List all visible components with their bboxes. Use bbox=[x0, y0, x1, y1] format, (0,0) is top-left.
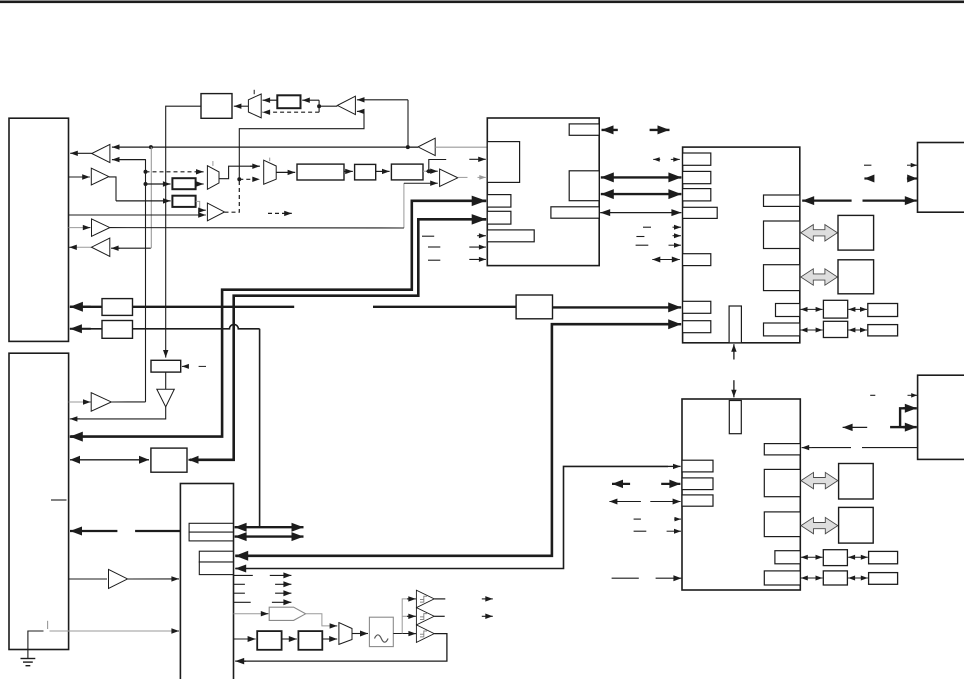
IC U0 host interface block bbox=[9, 118, 69, 341]
double arrow U3 pin R5 to G2a bbox=[801, 576, 823, 581]
thick path P3 U6 to U2 bbox=[236, 324, 670, 556]
U2 pin box L2 bbox=[683, 171, 711, 183]
U1 pin box left s1 bbox=[487, 195, 511, 208]
buffer Ta bbox=[337, 96, 355, 114]
arrow C1 to C2 bbox=[282, 636, 297, 642]
net x259 down to U6 bus arrow bbox=[259, 329, 261, 527]
U6 pin box R4 bbox=[199, 562, 233, 575]
wire Ta output to node J1 bbox=[319, 100, 337, 106]
thick arrow label left y178 bbox=[864, 175, 874, 183]
thick arrow into U1 top right box bbox=[602, 125, 618, 134]
tick U6 row y584 bbox=[234, 583, 245, 585]
wire U5 to label gap y447 bbox=[862, 447, 918, 449]
wire B2 output to box 2 bbox=[109, 177, 116, 201]
arrowhead into T1 bbox=[407, 596, 416, 601]
U2 pin box L7 bbox=[683, 321, 711, 333]
divider box C1 bbox=[257, 631, 281, 650]
small arrow into U1 wide pin bbox=[477, 233, 486, 238]
grey stub T_c output bbox=[458, 176, 468, 178]
bus arrow into U0 row m2 bbox=[70, 324, 91, 333]
bus m1 segment box BUS to U2 bbox=[553, 306, 671, 308]
ground wire from switch bbox=[28, 631, 44, 659]
small arrow into U2 row y227 bbox=[673, 225, 682, 230]
register box A bbox=[201, 94, 232, 119]
arrowhead into mux M2 upper input bbox=[250, 164, 260, 169]
tiny arrow into U4 y165 bbox=[907, 163, 917, 168]
tiny arrow into U3 row y519 bbox=[674, 517, 681, 522]
U2 pin box L3 bbox=[683, 189, 711, 201]
wire into U3 row y578 bbox=[656, 575, 682, 581]
dash label left of U1 wide pin bbox=[422, 235, 434, 237]
arrowhead P3 into U6 pin bbox=[235, 551, 248, 561]
arrowhead bus m1 into U2 pin6 bbox=[668, 302, 681, 312]
junction J1 on Ta output bbox=[317, 104, 321, 108]
bus register box M2 bbox=[102, 321, 133, 339]
arrowhead into T2 bbox=[407, 614, 416, 619]
dash line U3 row y578 left part bbox=[612, 577, 639, 579]
thick L wire into U5 bbox=[900, 408, 905, 427]
filter box 5 bbox=[297, 164, 344, 180]
schmitt buffer T2 bbox=[416, 608, 434, 625]
wire U0 row to T_b lower input bbox=[69, 212, 206, 217]
arrowhead into pentagon bbox=[261, 611, 269, 616]
grey jog box2 output to T_b upper input bbox=[196, 201, 200, 210]
mux M3 bbox=[207, 161, 219, 189]
wire box A to vertical net N1 bbox=[166, 106, 201, 355]
T1 label arrow bbox=[482, 596, 493, 602]
arrow mux M1 output into box A bbox=[234, 104, 249, 109]
box G2a bbox=[823, 571, 847, 585]
buffer T_b bbox=[207, 203, 224, 221]
schmitt buffer T3 bbox=[416, 625, 434, 643]
thin arrow label left y501 bbox=[609, 499, 641, 505]
SRAM box D4 bbox=[839, 507, 874, 543]
arrow node into box R bbox=[302, 98, 319, 103]
thick wire segment toward U4 bbox=[863, 200, 906, 202]
double arrow U3 pin R4 to G1a bbox=[801, 555, 823, 560]
U6 pin box R2 bbox=[189, 532, 233, 541]
arrowhead P2 into box B14 bbox=[189, 456, 199, 464]
thick path P2 U1 to box B14 bbox=[190, 219, 486, 459]
tick U6 row y593 bbox=[234, 592, 245, 594]
grey net from long net down x151 bbox=[150, 147, 152, 248]
wire U7 to buffer B7 bbox=[69, 578, 107, 580]
small arrow into U2 row y236 bbox=[673, 233, 682, 238]
interface box B14 bbox=[151, 448, 187, 472]
grey wire U0 to B3 bbox=[69, 227, 88, 229]
thick path P1 U1 to U7 bbox=[71, 201, 486, 437]
wire B4 input horizontal bbox=[116, 247, 151, 249]
IC U6 clock block bbox=[180, 484, 233, 679]
U6 pin box R1 bbox=[189, 523, 233, 532]
junction J3 grey drop on long net bbox=[149, 145, 153, 149]
grey switch wire into U6 bbox=[50, 630, 174, 632]
arrow box R output into mux M1 bbox=[263, 98, 278, 103]
box F1 bbox=[823, 321, 847, 337]
U2 pin box Re bbox=[764, 323, 800, 336]
box F2 bbox=[868, 325, 898, 336]
wire label gap to U3 pin R1 bbox=[812, 447, 851, 449]
dash label near U5 y395 bbox=[870, 394, 875, 396]
buffer G1 bbox=[418, 138, 435, 155]
arrowhead feedback into U6 bbox=[235, 658, 246, 665]
arrow net into B1 lower input bbox=[112, 157, 146, 162]
arrow into Ta lower input bbox=[357, 109, 365, 114]
dashed wire net x145 to mux M3 bbox=[146, 169, 204, 174]
U2 pin box Ra bbox=[764, 195, 800, 206]
U3 pin box L3 bbox=[682, 495, 713, 506]
arrowhead lower into U5 bbox=[903, 423, 917, 432]
arrowhead P1 into U1 pin bbox=[472, 196, 487, 207]
arrow C2 to mux M4 lower bbox=[322, 636, 337, 642]
top border bar bbox=[0, 1, 964, 4]
thick arrow into U4 y178 bbox=[907, 175, 917, 183]
U1 pin box left wide bbox=[487, 230, 534, 242]
small arrow left label y159 bbox=[653, 157, 660, 162]
junction J7 on box7 output bbox=[427, 169, 431, 173]
IC U3 codec block 2 bbox=[682, 399, 800, 590]
T2 label arrow bbox=[482, 614, 493, 620]
bus m1 mid segment bbox=[133, 306, 295, 308]
stub net J7 up right toward U1 bbox=[429, 160, 446, 172]
arrow down into U3 clock slot bbox=[731, 380, 736, 397]
dash label U2 row y236 bbox=[636, 236, 644, 238]
inverter Tdown bbox=[157, 389, 175, 407]
grey wire U6 to pentagon bbox=[234, 613, 263, 615]
IC U4 memory block bbox=[918, 143, 964, 213]
SRAM box D1 bbox=[838, 215, 874, 250]
tiny arrow into U5 y395 bbox=[908, 393, 918, 398]
dashed wire J1 to mux M1 lower input bbox=[263, 110, 320, 115]
thick bus U1-U2 row1 bbox=[601, 172, 682, 182]
divider box C2 bbox=[298, 631, 322, 650]
schmitt buffer T1 bbox=[416, 590, 434, 607]
bus register box BUS bbox=[516, 295, 552, 319]
buffer T_c bbox=[440, 169, 458, 186]
arrow into buffer B2 input bbox=[69, 174, 90, 179]
grey wire box7 to T_c upper input bbox=[423, 170, 433, 172]
arrow long net into B1 upper input bbox=[112, 144, 418, 149]
dash label U3 row y519 bbox=[634, 518, 641, 520]
arrow small into box S right edge bbox=[182, 364, 189, 369]
thin arrow label left y427 bbox=[843, 424, 868, 432]
arrow box6 to box7 bbox=[376, 169, 390, 174]
mux M1 bbox=[248, 90, 261, 118]
fat grey arrow U3-D3 bbox=[801, 472, 838, 488]
small arrow into U2 pin1 bbox=[671, 157, 680, 162]
grey wire U7 to buffer B5 bbox=[69, 401, 88, 403]
arrowhead switch wire into U6 bbox=[171, 628, 179, 633]
box E2 bbox=[868, 304, 898, 317]
arrowhead P3 into U2 pin7 bbox=[668, 319, 681, 329]
wire inverter D to U7 bbox=[71, 407, 166, 419]
U2 pin box Rd bbox=[776, 304, 800, 317]
arrow box1 output into mux M3 bbox=[196, 181, 204, 186]
mux M2 bbox=[264, 158, 277, 185]
arrowhead into T3 bbox=[408, 631, 416, 636]
double arrow G2a to G2b bbox=[848, 576, 868, 581]
thin arrow into U3 pin L3 bbox=[650, 499, 680, 505]
buffer B7 bbox=[109, 569, 128, 588]
label arrow row y575 bbox=[270, 572, 292, 578]
wire B5 output up net x145 bbox=[111, 401, 145, 403]
box G2b bbox=[869, 573, 898, 585]
dash label U2 row y227 bbox=[643, 226, 651, 228]
IC U1 DSP block bbox=[487, 118, 599, 266]
filter box 7 bbox=[391, 164, 423, 180]
dash label U2 row y245 bbox=[636, 244, 649, 246]
isolated dashed arrow to DSP label bbox=[268, 211, 292, 216]
T2 output stub bbox=[434, 615, 445, 617]
U3 clock slot box bbox=[729, 401, 741, 434]
U3 pin box R2 bbox=[764, 469, 800, 496]
small arrow into U1 row y247 bbox=[469, 245, 486, 250]
thick arrow label to right bbox=[650, 125, 670, 134]
wire riser x408 from long net to Ta upper bbox=[407, 100, 409, 147]
dash label U3 row y531 bbox=[634, 530, 647, 532]
tick U6 row y602 bbox=[234, 601, 251, 603]
grey wire B4 output to U0 bbox=[74, 246, 92, 248]
junction J6 dashed to mux M2 bbox=[237, 177, 241, 181]
thick wire segment from U6 left bbox=[135, 530, 180, 532]
fat grey arrow U2-D1 bbox=[801, 225, 838, 241]
U2 pin box L6 bbox=[683, 301, 711, 313]
arrowhead into U4 bbox=[903, 196, 917, 205]
grey wire U1 to G1 input bbox=[435, 146, 486, 148]
mux M4 bbox=[339, 623, 352, 645]
dashed T_b output net bbox=[225, 179, 240, 212]
T1 output stub bbox=[434, 598, 445, 600]
dash label mark right of box S bbox=[199, 365, 206, 367]
small arrow into U3 row y531 bbox=[667, 529, 681, 534]
double arrow F1 to F2 bbox=[848, 328, 867, 333]
box G1a bbox=[823, 550, 847, 566]
thick double bus U6 row2 bbox=[235, 532, 304, 541]
grey branch to T2 bbox=[402, 615, 408, 617]
IC U2 codec block bbox=[683, 147, 800, 343]
box G1b bbox=[869, 551, 898, 563]
wire oscillator output to T3 bbox=[393, 633, 409, 635]
double arrow U2 pin Re to F1 bbox=[801, 328, 823, 333]
U1 pin box right mid bbox=[569, 171, 599, 201]
SRAM box D3 bbox=[839, 464, 874, 500]
arrow into B4 base bbox=[111, 246, 120, 251]
U1 pin box left tall bbox=[487, 142, 519, 183]
wire mux M3 output to mux M2 upper input bbox=[219, 166, 258, 179]
bus m2 wire with hop over P2 bbox=[133, 324, 260, 328]
fat grey arrow U3-D4 bbox=[801, 517, 838, 533]
U3 pin box L2 bbox=[682, 478, 713, 490]
bus register box M1 bbox=[102, 299, 133, 316]
bus m1 right segment to box BUS bbox=[373, 306, 516, 308]
coefficient box 2 bbox=[172, 196, 195, 207]
arrowhead B4 into U0 bbox=[69, 245, 77, 250]
junction J4 on net x145 dashed tap bbox=[144, 170, 148, 174]
double arrow G1a to G1b bbox=[848, 555, 868, 560]
register box R bbox=[277, 95, 300, 108]
tick U6 row y575 bbox=[234, 574, 253, 576]
label arrow row y584 bbox=[275, 581, 291, 587]
wire net x145 into box 1 bbox=[146, 181, 171, 186]
U3 pin box L1 bbox=[682, 460, 713, 472]
bus m2 left segment bbox=[70, 328, 102, 330]
small double arrow into U2 pin5 bbox=[652, 257, 680, 263]
U1 pin box left s2 bbox=[487, 211, 511, 224]
U2 pin box Rb bbox=[764, 221, 800, 249]
dash label left of U1 row y259 bbox=[428, 259, 440, 261]
grey arrow T_c output into U1 bbox=[478, 175, 486, 180]
label arrow row y593 bbox=[275, 590, 291, 596]
fat grey arrow U2-D2 bbox=[801, 269, 838, 285]
arrowhead clock into U6 pin bbox=[235, 565, 246, 573]
wire B2 net into box 2 bbox=[116, 198, 171, 203]
U3 pin box R5 bbox=[764, 571, 800, 585]
thick arrow label left y483 bbox=[612, 480, 630, 489]
thin bus U1-U2 row3 bbox=[600, 209, 681, 216]
arrow box5 to box6 bbox=[344, 169, 353, 174]
dash label left of U1 row y247 bbox=[428, 246, 440, 248]
U2 clock slot box bbox=[729, 306, 741, 343]
arrow into Ta upper input bbox=[357, 97, 408, 102]
small arrow into U2 row y245 bbox=[669, 243, 682, 248]
arrowhead into mux M4 upper bbox=[330, 623, 338, 628]
buffer B5 bbox=[91, 393, 111, 412]
junction J5 on net x145 box1 tap bbox=[144, 182, 148, 186]
arrowhead L wire upper into U5 bbox=[903, 404, 917, 413]
double arrow U2 pin Rd to E1 bbox=[801, 307, 823, 312]
dash label near U4 y165 bbox=[864, 164, 871, 166]
arrowhead into B5 bbox=[83, 399, 91, 404]
register box S bbox=[151, 360, 181, 372]
buffer B3 bbox=[92, 219, 110, 236]
wire from net y128 up to Ta lower input bbox=[239, 111, 364, 179]
net x259 end touch bbox=[259, 525, 261, 528]
arrowhead clock into U3 pin1 bbox=[668, 464, 681, 469]
arrowhead P1 into U7 bbox=[70, 432, 83, 442]
arrow mux M4 to oscillator bbox=[352, 631, 368, 637]
wire node J1 down to dashed feed bbox=[318, 106, 320, 112]
thick arrow into U2 pin Ra bbox=[802, 196, 851, 205]
box E1 bbox=[823, 300, 847, 318]
U2 pin box Rc bbox=[764, 265, 800, 291]
arrow segment into U1 pin row y159 bbox=[469, 157, 486, 162]
U3 pin box R3 bbox=[764, 512, 800, 537]
thick arrow into U3 pin L2 bbox=[661, 480, 680, 489]
buffer B2 bbox=[91, 168, 109, 185]
ground symbol bbox=[21, 659, 36, 666]
SRAM box D2 bbox=[838, 260, 874, 294]
bus m1 left segment bbox=[70, 306, 102, 308]
arrow into T_b upper input bbox=[198, 208, 206, 213]
arrowhead P2 into U1 pin bbox=[472, 214, 487, 225]
switch contact tick bbox=[47, 621, 49, 629]
grey riser from long B3 net bbox=[403, 183, 405, 228]
long wire B3 output to grey riser bbox=[110, 227, 404, 229]
U3 pin box R4 bbox=[775, 551, 800, 564]
filter box 6 bbox=[355, 164, 376, 180]
small arrow into U1 row y259 bbox=[469, 257, 486, 262]
grey riser to T1 T2 bbox=[402, 599, 408, 634]
double arrow U7 to box B14 bbox=[70, 456, 149, 464]
arrow mux M2 output into box 5 bbox=[276, 170, 295, 175]
arrow into register box S top bbox=[163, 350, 168, 358]
U2 pin box L4 wide bbox=[683, 207, 718, 218]
junction J2 on long net at x408 bbox=[406, 145, 410, 149]
arrow up into U2 clock slot bbox=[731, 344, 736, 359]
wire long net y147 behind G1 bbox=[408, 146, 418, 148]
arrowhead into B3 bbox=[83, 225, 91, 230]
buffer B4 bbox=[92, 238, 110, 256]
oscillator box OSC bbox=[369, 617, 393, 646]
arrowhead into U7 row y418 bbox=[70, 416, 80, 421]
U1 pin box right wide bbox=[551, 207, 599, 218]
clock wire U6 to U3 via x563 bbox=[236, 466, 668, 568]
arrowhead into U3 pin R1 bbox=[802, 445, 812, 450]
thick bus U1-U2 row2 bbox=[601, 189, 682, 199]
arrow B1 output into U0 bbox=[70, 151, 92, 156]
buffer B1 bbox=[92, 144, 110, 162]
thick arrow segment into U7 row y531 bbox=[70, 527, 117, 536]
grey wire pentagon to mux M4 bbox=[306, 614, 330, 626]
wire U6 to box C1 bbox=[234, 636, 256, 642]
T3 feedback loop bbox=[237, 634, 447, 662]
wire B7 output into U6 bbox=[128, 576, 179, 581]
thick double bus U6 row1 bbox=[235, 523, 304, 532]
IC U7 control block bbox=[9, 353, 69, 649]
thick bus arrow into U0 row m1 bbox=[70, 302, 91, 312]
U2 pin box L5 bbox=[683, 254, 711, 266]
coefficient box 1 bbox=[172, 178, 195, 189]
dashed wire J6 to mux M2 lower input bbox=[239, 177, 260, 182]
wire box S bottom to inverter D bbox=[165, 372, 167, 389]
dash label mark in U7 bbox=[51, 499, 67, 501]
arrow into T_c lower input bbox=[404, 181, 438, 186]
U2 pin box L1 bbox=[683, 153, 711, 165]
pentagon tag PLL bbox=[269, 607, 305, 620]
U3 pin box R1 bbox=[764, 444, 800, 455]
arrowhead into T_c upper input bbox=[426, 169, 438, 174]
double arrow E1 to E2 bbox=[848, 307, 867, 312]
wire vertical net x145 bbox=[145, 160, 147, 402]
U1 pin box top right bbox=[569, 124, 599, 135]
label arrow row y602 bbox=[272, 599, 292, 605]
IC U5 memory block 2 bbox=[918, 375, 964, 459]
U6 pin box R3 bbox=[199, 551, 233, 562]
thick wire lower into U5 bbox=[890, 426, 905, 428]
